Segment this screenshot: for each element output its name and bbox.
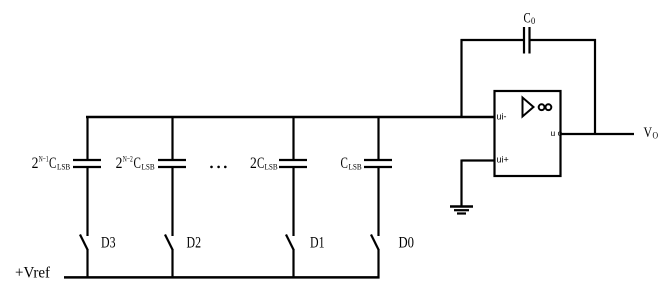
wire top bus (op-amp inverting input net) [86,116,495,118]
wire output [561,133,635,135]
wire feedback right vertical [594,39,596,135]
op-amp triangle symbol [523,98,534,117]
wire switch D2 to bottom rail [171,249,173,279]
capacitor 2^(N-2)C_LSB top plate [158,159,186,161]
svg-text:C: C [524,11,531,27]
capacitor 2^(N-2)C_LSB bottom plate [158,166,186,168]
wire switch D3 to bottom rail [86,249,88,279]
svg-text:LSB: LSB [142,162,155,172]
svg-text:LSB: LSB [265,162,278,172]
wire capacitor 4 to switch D0 [377,167,379,237]
svg-text:N−1: N−1 [39,154,49,164]
label C_LSB [341,155,362,172]
svg-text:N−2: N−2 [123,154,133,164]
label Vo [644,125,659,141]
capacitor 2^(N-1)C_LSB bottom plate [73,166,101,168]
svg-text:ui+: ui+ [497,155,509,165]
wire feedback left vertical [460,39,462,118]
svg-text:C: C [257,155,264,172]
capacitor 2^(N-2)C_LSB branch: wire from bus [171,116,173,161]
svg-text:O: O [653,131,659,141]
label 2^(N-2)C_LSB [116,154,155,173]
wire feedback top right segment [530,39,597,41]
svg-text:+Vref: +Vref [15,265,51,282]
svg-text:2: 2 [116,155,123,172]
label 2^(N-1)C_LSB [32,154,71,173]
wire switch D1 to bottom rail [292,249,294,279]
switch D1 blade [286,235,294,251]
label 2C_LSB [250,155,278,172]
svg-text:2: 2 [250,155,257,172]
capacitor C_LSB top plate [364,159,392,161]
node ellipsis dots [210,166,226,169]
svg-text:LSB: LSB [349,162,362,172]
capacitor C_LSB branch: wire from bus [377,116,379,161]
svg-text:C: C [134,155,141,172]
wire bottom +Vref rail [64,276,380,279]
capacitor 2^(N-1)C_LSB top plate [73,159,101,161]
svg-text:C: C [341,155,348,172]
svg-text:ui-: ui- [497,112,507,122]
ground [450,207,473,214]
capacitor C0 right plate [528,27,530,54]
svg-text:LSB: LSB [57,162,70,172]
wire non-inverting input to ground [462,159,496,161]
op-amp U1 body [495,91,561,176]
capacitor 2C_LSB bottom plate [279,166,307,168]
op-amp infinity gain symbol [539,104,552,110]
svg-text:D2: D2 [187,235,202,252]
svg-text:C: C [49,155,56,172]
wire capacitor 2 to switch D2 [171,167,173,237]
switch D2 blade [165,235,173,251]
svg-text:D3: D3 [101,235,116,252]
svg-text:0: 0 [531,16,536,26]
wire switch D0 to bottom rail [377,249,379,279]
capacitor 2C_LSB branch: wire from bus [292,116,294,161]
wire ground vertical [460,160,462,207]
svg-text:D0: D0 [399,235,415,252]
label C0 [524,11,536,27]
wire feedback top left segment [461,39,525,41]
wire capacitor 3 to switch D1 [292,167,294,237]
capacitor 2^(N-1)C_LSB branch: wire from bus [86,116,88,161]
wire capacitor 1 to switch D3 [86,167,88,237]
svg-text:D1: D1 [310,235,325,252]
capacitor C0 left plate [523,27,525,54]
svg-text:2: 2 [32,155,39,172]
switch D3 blade [80,235,88,251]
capacitor 2C_LSB top plate [279,159,307,161]
switch D0 blade [371,235,379,251]
capacitor C_LSB bottom plate [364,166,392,168]
svg-text:V: V [644,125,653,141]
